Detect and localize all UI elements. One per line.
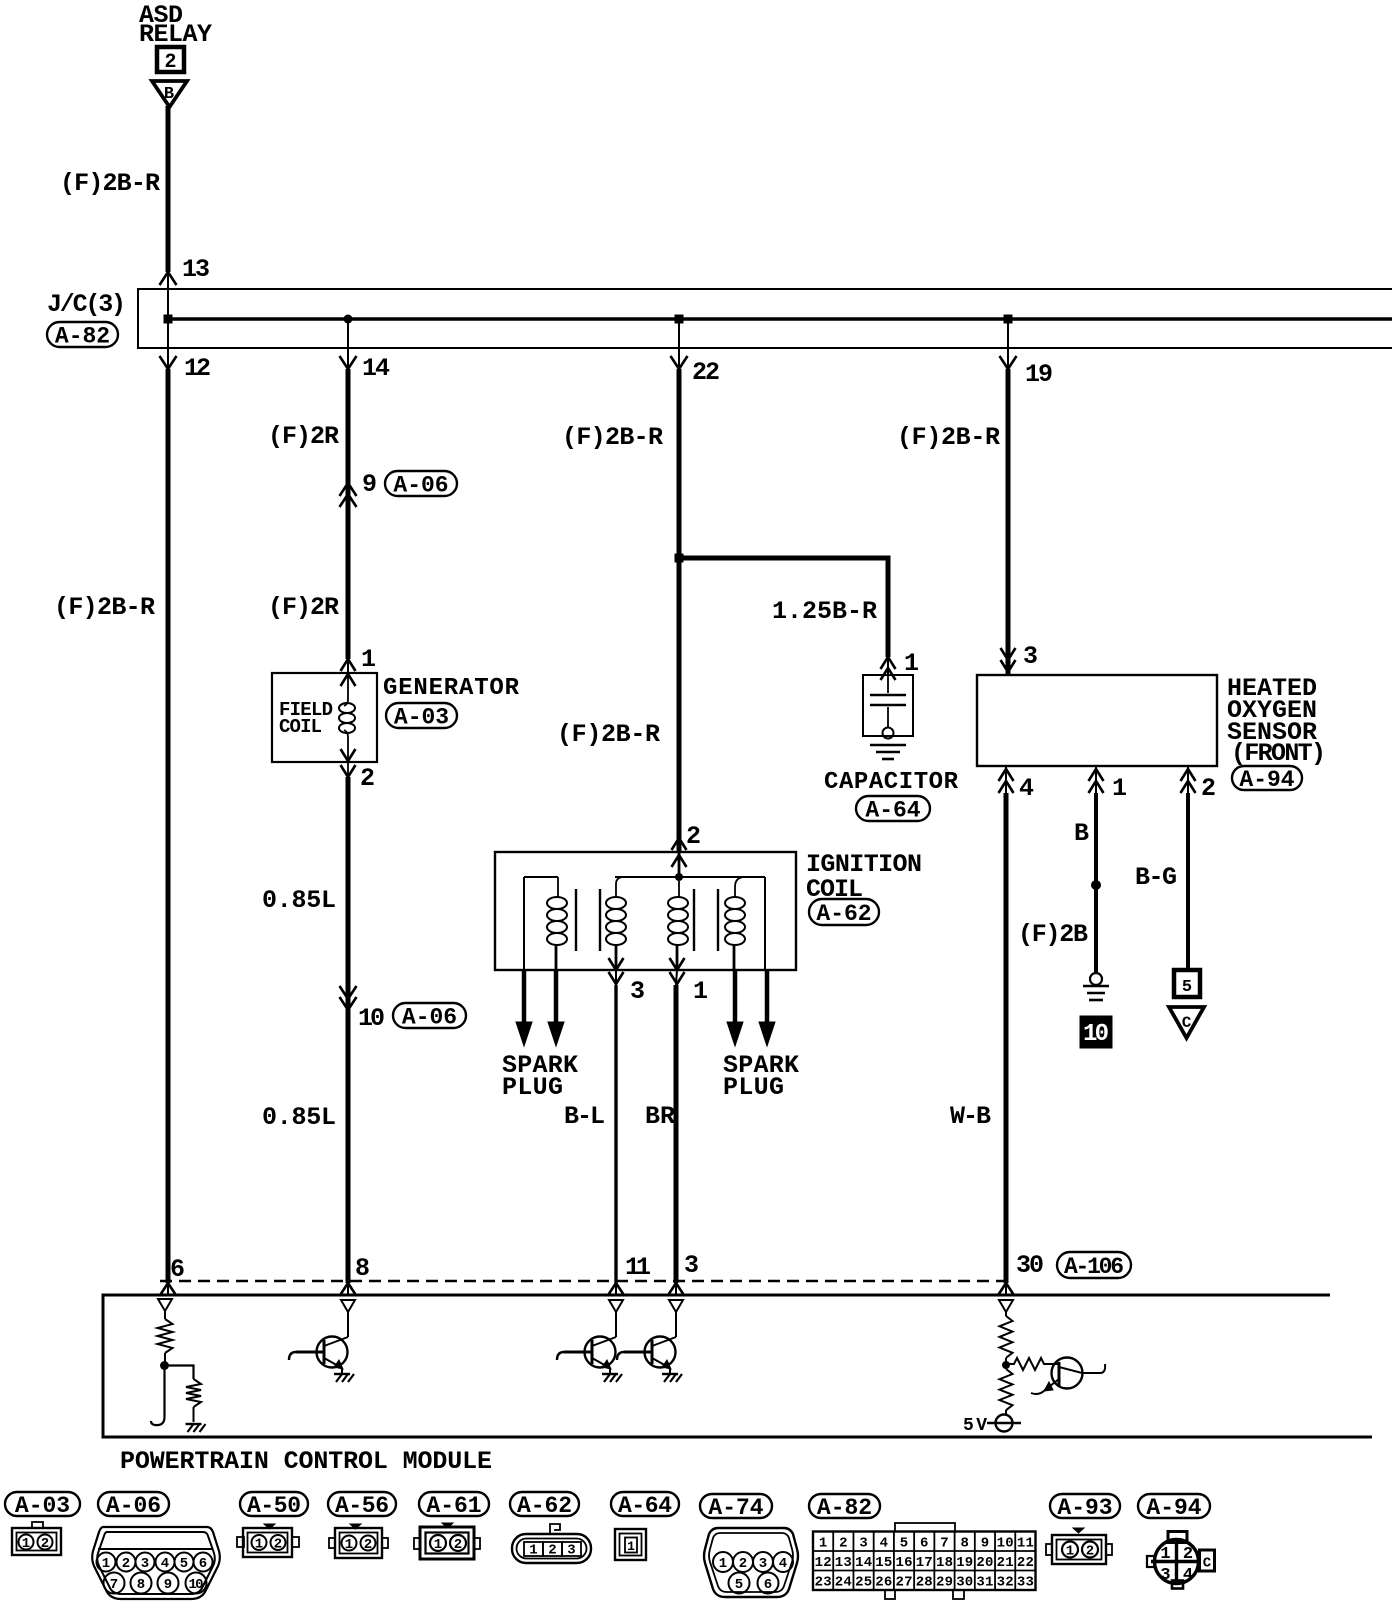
field coil L1 — [339, 703, 355, 713]
svg-text:1: 1 — [345, 1537, 353, 1553]
wire 1.25B-R branch to capacitor — [679, 558, 888, 657]
ASD relay pin box 2 — [157, 47, 184, 72]
transistor Q1 collector wire — [347, 1312, 349, 1337]
wire to R2 — [165, 1366, 194, 1380]
svg-text:4: 4 — [1019, 774, 1034, 803]
resistor R2 — [186, 1379, 201, 1407]
svg-text:C: C — [1203, 1556, 1212, 1572]
field coil wire bottom — [344, 730, 348, 777]
arrow out of J/C pin 12 — [160, 356, 177, 369]
PCM pin 6 input triangle — [158, 1299, 172, 1311]
wire — [193, 1407, 195, 1422]
transistor Q1 — [317, 1337, 348, 1368]
wire with hook end — [151, 1366, 165, 1426]
svg-text:1: 1 — [1066, 1544, 1074, 1560]
arrows out of oxygen sensor pin 2 — [1181, 769, 1196, 781]
connector oval A-93 — [1050, 1494, 1120, 1518]
connector oval A-82 — [809, 1494, 880, 1518]
svg-text:RELAY: RELAY — [139, 20, 212, 49]
wire (F)2B-R from ASD relay to J/C(3) — [166, 106, 171, 272]
svg-text:(F)2B-R: (F)2B-R — [54, 593, 155, 622]
connector oval A-06 — [393, 1003, 466, 1028]
svg-text:33: 33 — [1017, 1575, 1034, 1591]
svg-text:9: 9 — [164, 1577, 172, 1593]
svg-text:A-06: A-06 — [402, 1005, 457, 1031]
connector oval A-03 — [5, 1492, 80, 1516]
arrows out of oxygen sensor pin 1 — [1089, 769, 1104, 781]
transistor Q3 — [645, 1337, 676, 1368]
transistor Q2 — [585, 1337, 616, 1368]
ignition coil internal bus wires — [615, 876, 765, 878]
svg-text:A-06: A-06 — [106, 1493, 161, 1519]
arrows out of ignition coil pin 1 — [670, 958, 685, 970]
svg-text:4: 4 — [880, 1536, 888, 1552]
svg-text:J/C(3): J/C(3) — [47, 290, 126, 319]
svg-text:0.85L: 0.85L — [262, 886, 336, 915]
svg-text:POWERTRAIN CONTROL MODULE: POWERTRAIN CONTROL MODULE — [120, 1447, 492, 1476]
svg-text:3: 3 — [684, 1251, 699, 1280]
svg-text:3: 3 — [567, 1543, 575, 1559]
connector oval A-64 — [856, 796, 930, 821]
svg-text:1: 1 — [693, 977, 708, 1006]
svg-text:1: 1 — [627, 1539, 635, 1554]
connector A-64 drawing — [615, 1529, 646, 1560]
svg-text:A-94: A-94 — [1239, 767, 1294, 793]
svg-text:1: 1 — [22, 1536, 30, 1552]
svg-text:7: 7 — [110, 1577, 118, 1593]
svg-text:2: 2 — [41, 1536, 49, 1552]
PCM connector dashed line — [160, 1280, 1006, 1282]
svg-text:27: 27 — [896, 1575, 913, 1591]
svg-text:A-74: A-74 — [708, 1495, 763, 1521]
connector oval A-62 — [510, 1492, 579, 1516]
junction node pin 14 — [344, 315, 353, 324]
junction node pin 13/12 — [164, 315, 173, 324]
arrow out of generator pin 2 — [341, 765, 356, 777]
svg-text:A-62: A-62 — [816, 901, 871, 927]
svg-text:14: 14 — [855, 1555, 872, 1571]
svg-text:1: 1 — [719, 1556, 727, 1572]
svg-text:GENERATOR: GENERATOR — [383, 675, 520, 702]
PCM pin input triangle for Q1 — [341, 1300, 355, 1312]
svg-text:17: 17 — [916, 1555, 933, 1571]
wire (F)2B-R from J/C pin 12 to PCM pin 6 — [167, 319, 169, 369]
junction node pin 19 — [1004, 315, 1013, 324]
ignition coil internal junction node — [675, 873, 683, 881]
connector oval A-03 — [386, 703, 457, 728]
svg-text:8: 8 — [137, 1577, 145, 1593]
svg-text:19: 19 — [956, 1555, 973, 1571]
spark plug lead 2 — [554, 970, 559, 1026]
svg-text:6: 6 — [920, 1536, 928, 1552]
ground terminal circle — [1090, 973, 1102, 985]
svg-text:10: 10 — [1083, 1021, 1109, 1048]
junction node to capacitor branch — [675, 554, 684, 563]
svg-text:A-50: A-50 — [247, 1493, 301, 1519]
svg-text:2: 2 — [686, 822, 701, 851]
svg-text:A-03: A-03 — [15, 1493, 70, 1519]
svg-text:2: 2 — [274, 1537, 282, 1553]
svg-text:A-61: A-61 — [426, 1493, 481, 1519]
svg-text:W-B: W-B — [950, 1102, 991, 1131]
wire B-L from ignition coil pin 3 to PCM pin 11 — [615, 970, 617, 985]
connector A-93 drawing — [1073, 1528, 1084, 1533]
svg-text:2: 2 — [1086, 1544, 1094, 1560]
svg-text:26: 26 — [875, 1575, 892, 1591]
connector oval A-94 — [1232, 766, 1302, 790]
svg-text:2: 2 — [364, 1537, 372, 1553]
svg-text:3: 3 — [630, 977, 645, 1006]
svg-text:4: 4 — [779, 1556, 787, 1572]
svg-text:2: 2 — [122, 1556, 130, 1572]
ignition coil T1 primary winding — [616, 877, 624, 897]
arrows into capacitor pin 1 — [881, 657, 896, 669]
svg-text:1: 1 — [1160, 1545, 1170, 1564]
connector A-56 drawing — [350, 1524, 361, 1529]
svg-text:22: 22 — [1017, 1555, 1034, 1571]
arrows out of oxygen sensor pin 4 — [999, 769, 1014, 781]
svg-text:11: 11 — [625, 1253, 651, 1282]
connector oval A-94 — [1138, 1494, 1210, 1518]
connector oval A-06 — [98, 1492, 169, 1516]
transistor Q1 base wire — [296, 1351, 324, 1354]
svg-text:12: 12 — [815, 1555, 832, 1571]
wire B from oxygen sensor pin 1 to ground — [1095, 766, 1097, 793]
svg-text:9: 9 — [981, 1536, 989, 1552]
svg-text:1.25B-R: 1.25B-R — [772, 597, 877, 626]
wire B-G from oxygen sensor pin 2 — [1187, 766, 1189, 793]
svg-text:A-62: A-62 — [517, 1493, 572, 1519]
connector oval A-62 — [809, 899, 879, 925]
transistor Q3 emitter ground — [662, 1373, 678, 1375]
arrow into PCM pin 3 — [668, 1283, 685, 1296]
svg-text:2: 2 — [164, 51, 176, 74]
svg-text:1: 1 — [255, 1537, 263, 1553]
ground symbol — [1083, 985, 1109, 988]
junction node pin 22 — [675, 315, 684, 324]
inline connector A-06 pin 9 arrows — [340, 483, 357, 496]
svg-text:9: 9 — [362, 470, 377, 499]
svg-text:7: 7 — [940, 1536, 948, 1552]
svg-text:10: 10 — [997, 1536, 1014, 1552]
svg-text:15: 15 — [875, 1555, 892, 1571]
svg-text:COIL: COIL — [279, 716, 322, 738]
svg-text:4: 4 — [161, 1556, 169, 1572]
heated oxygen sensor box — [977, 675, 1217, 766]
svg-text:CAPACITOR: CAPACITOR — [824, 769, 959, 796]
svg-text:PLUG: PLUG — [723, 1073, 784, 1102]
arrow out of J/C pin 19 — [1000, 356, 1017, 369]
connector oval A-61 — [419, 1492, 489, 1516]
svg-text:13: 13 — [182, 255, 210, 284]
shield joint box 5 — [1174, 970, 1200, 997]
node — [1002, 1361, 1010, 1369]
svg-text:2: 2 — [839, 1536, 847, 1552]
svg-text:1: 1 — [819, 1536, 827, 1552]
arrow inside generator box bottom — [341, 749, 356, 761]
transistor Q4 — [1052, 1358, 1083, 1389]
wire W-B from oxygen sensor pin 4 to PCM pin 30 — [1005, 766, 1007, 793]
arrow into PCM pin 6 — [160, 1283, 177, 1296]
powertrain control module box — [103, 1295, 1372, 1437]
svg-text:31: 31 — [976, 1575, 993, 1591]
wire 0.85L from generator to PCM pin 8 — [346, 777, 351, 1283]
svg-text:A-106: A-106 — [1064, 1254, 1124, 1280]
svg-text:(F)2B-R: (F)2B-R — [60, 169, 160, 198]
wire — [1005, 1358, 1007, 1366]
svg-text:5V: 5V — [963, 1416, 987, 1436]
generator box — [272, 673, 377, 762]
wire (F)2B-R from J/C pin 22 to ignition coil — [678, 319, 680, 369]
svg-text:(F)2B-R: (F)2B-R — [557, 720, 660, 749]
arrow into PCM pin 30 — [998, 1283, 1015, 1296]
svg-text:3: 3 — [1160, 1566, 1170, 1585]
svg-text:10: 10 — [358, 1004, 385, 1033]
svg-text:A-56: A-56 — [335, 1493, 389, 1519]
field coil wire top — [344, 674, 348, 706]
wire (F)2R from J/C pin 14 to generator — [347, 319, 349, 369]
svg-text:3: 3 — [1023, 642, 1038, 671]
PCM pin input triangle for Q2 — [609, 1300, 623, 1312]
capacitor C1 box — [863, 675, 913, 736]
svg-text:13: 13 — [835, 1555, 852, 1571]
svg-text:(F)2B: (F)2B — [1018, 920, 1088, 949]
svg-text:24: 24 — [835, 1575, 852, 1591]
arrows out of ignition coil pin 3 — [609, 958, 624, 970]
transistor Q2 collector wire — [615, 1312, 617, 1337]
svg-text:14: 14 — [362, 354, 390, 383]
arrow into PCM pin 11 — [608, 1283, 625, 1296]
svg-text:5: 5 — [1182, 978, 1192, 997]
ignition coil T2 primary winding — [678, 881, 680, 897]
wire — [1005, 1410, 1007, 1414]
svg-text:5: 5 — [900, 1536, 908, 1552]
svg-text:3: 3 — [759, 1556, 767, 1572]
svg-text:2: 2 — [1183, 1545, 1193, 1564]
arrow into PCM pin 8 — [340, 1283, 357, 1296]
svg-text:1: 1 — [1112, 774, 1127, 803]
wire — [1005, 1312, 1007, 1316]
arrow out of J/C pin 22 — [671, 356, 688, 369]
svg-text:12: 12 — [184, 354, 211, 383]
svg-text:3: 3 — [141, 1556, 149, 1572]
svg-text:PLUG: PLUG — [502, 1073, 563, 1102]
shield connector triangle C — [1169, 1007, 1204, 1038]
svg-text:1: 1 — [904, 649, 919, 678]
svg-text:1: 1 — [434, 1537, 442, 1553]
connector A-50 drawing — [264, 1524, 275, 1529]
capacitor case ground circle — [883, 728, 894, 739]
spark plug lead 3 — [733, 970, 738, 1026]
svg-text:8: 8 — [960, 1536, 968, 1552]
svg-text:32: 32 — [997, 1575, 1014, 1591]
svg-text:23: 23 — [815, 1575, 832, 1591]
PCM pin 30 input triangle — [999, 1300, 1013, 1312]
connector oval A-64 — [611, 1492, 679, 1516]
capacitor ground symbol — [870, 744, 906, 747]
svg-text:30: 30 — [1016, 1251, 1044, 1280]
transistor Q2 emitter ground — [602, 1373, 618, 1375]
connector oval A-106 — [1057, 1252, 1131, 1278]
svg-text:A-03: A-03 — [394, 705, 449, 731]
svg-text:(FRONT): (FRONT) — [1231, 739, 1326, 768]
svg-text:A-94: A-94 — [1146, 1495, 1201, 1521]
svg-text:B-G: B-G — [1135, 863, 1177, 892]
svg-text:4: 4 — [1183, 1566, 1193, 1585]
svg-text:2: 2 — [454, 1537, 462, 1553]
connector oval A-74 — [700, 1494, 772, 1518]
ignition coil T2 secondary winding — [735, 877, 745, 897]
svg-text:A-64: A-64 — [865, 798, 920, 824]
ignition coil internal feed wire — [678, 852, 681, 877]
ignition coil T1 secondary winding — [557, 877, 559, 897]
svg-text:6: 6 — [764, 1577, 772, 1593]
node — [160, 1361, 169, 1370]
svg-text:(F)2B-R: (F)2B-R — [562, 423, 663, 452]
svg-text:19: 19 — [1025, 360, 1053, 389]
connector A-74 drawing — [704, 1528, 798, 1597]
svg-text:3: 3 — [859, 1536, 867, 1552]
arrows into oxygen sensor pin 3 — [1001, 648, 1016, 660]
svg-text:5: 5 — [180, 1556, 188, 1572]
svg-text:1: 1 — [361, 645, 376, 674]
svg-text:16: 16 — [896, 1555, 913, 1571]
svg-text:22: 22 — [692, 358, 720, 387]
svg-text:8: 8 — [355, 1254, 370, 1283]
svg-text:25: 25 — [855, 1575, 872, 1591]
svg-text:30: 30 — [956, 1575, 973, 1591]
svg-text:A-82: A-82 — [817, 1495, 872, 1521]
transistor Q3 collector wire — [675, 1312, 677, 1337]
arrows into ignition coil pin 2 — [672, 838, 687, 850]
svg-text:A-06: A-06 — [393, 473, 448, 499]
wire BR from ignition coil pin 1 to PCM pin 3 — [676, 970, 677, 985]
junction box J/C(3) — [138, 289, 1392, 348]
svg-text:2: 2 — [548, 1543, 556, 1559]
transistor Q2 base wire — [564, 1351, 592, 1354]
junction node on ground wire — [1091, 880, 1101, 890]
svg-text:20: 20 — [976, 1555, 993, 1571]
svg-text:2: 2 — [1201, 774, 1216, 803]
connector oval A-82 — [47, 322, 118, 347]
connector oval A-50 — [240, 1492, 308, 1516]
svg-text:21: 21 — [997, 1555, 1014, 1571]
transistor Q1 emitter ground — [334, 1373, 350, 1375]
svg-text:1: 1 — [102, 1556, 110, 1572]
svg-text:(F)2R: (F)2R — [268, 422, 339, 451]
svg-text:A-82: A-82 — [55, 324, 110, 350]
svg-text:10: 10 — [189, 1577, 204, 1593]
ignition coil T1 core — [575, 889, 577, 951]
inline connector A-06 pin 10 arrows — [340, 986, 357, 999]
connector A-82 drawing — [895, 1523, 955, 1532]
arrow out of J/C pin 14 — [340, 356, 357, 369]
wire — [164, 1353, 166, 1365]
svg-text:B: B — [1074, 819, 1089, 848]
ignition coil T2 core — [693, 889, 695, 951]
capacitor C1 symbol — [887, 675, 889, 693]
svg-text:(F)2B-R: (F)2B-R — [897, 423, 1000, 452]
connector A-06 drawing — [92, 1527, 220, 1599]
connector oval A-06 — [385, 471, 457, 496]
5V supply symbol — [996, 1415, 1013, 1432]
svg-text:29: 29 — [936, 1575, 953, 1591]
resistor R3 — [1000, 1316, 1013, 1358]
svg-text:1: 1 — [529, 1543, 537, 1559]
connector A-94 drawing — [1168, 1532, 1187, 1543]
bus wire inside J/C(3) — [168, 317, 1392, 320]
svg-text:5: 5 — [735, 1577, 743, 1593]
svg-text:18: 18 — [936, 1555, 953, 1571]
ignition coil box — [495, 852, 796, 970]
svg-text:28: 28 — [916, 1575, 933, 1591]
connector oval A-56 — [328, 1492, 396, 1516]
resistor R5 — [1000, 1369, 1013, 1410]
svg-text:2: 2 — [360, 764, 375, 793]
spark plug lead 1 — [522, 970, 527, 1026]
svg-text:11: 11 — [1017, 1536, 1034, 1552]
arrow into J/C pin 13 — [160, 272, 177, 285]
svg-text:C: C — [1182, 1014, 1192, 1032]
ASD relay connector triangle B — [152, 81, 187, 107]
connector A-62 drawing — [550, 1524, 560, 1534]
svg-text:(F)2R: (F)2R — [268, 593, 339, 622]
resistor R4 horizontal — [1006, 1358, 1058, 1370]
svg-text:A-93: A-93 — [1057, 1495, 1112, 1521]
svg-text:6: 6 — [199, 1556, 207, 1572]
spark plug lead 4 — [765, 970, 770, 1026]
connector A-03 drawing — [32, 1522, 43, 1528]
resistor R1 — [158, 1319, 173, 1353]
transistor Q3 base wire — [624, 1351, 652, 1354]
connector A-61 drawing — [442, 1523, 453, 1528]
ground point box 10 — [1080, 1016, 1112, 1048]
svg-text:2: 2 — [739, 1556, 747, 1572]
svg-text:0.85L: 0.85L — [262, 1103, 336, 1132]
svg-text:B-L: B-L — [564, 1102, 605, 1131]
ignition coil T1 secondary output wire — [523, 877, 525, 970]
ignition coil T2 secondary output wire — [764, 877, 766, 970]
wire (F)2B-R from J/C pin 19 to oxygen sensor — [1007, 319, 1009, 369]
wire — [164, 1311, 166, 1319]
svg-text:A-64: A-64 — [618, 1493, 672, 1519]
svg-text:6: 6 — [170, 1255, 185, 1284]
arrow into generator pin 1 — [341, 659, 356, 671]
PCM pin input triangle for Q3 — [669, 1300, 683, 1312]
svg-text:B: B — [164, 85, 174, 104]
arrow inside generator box — [341, 674, 356, 686]
svg-text:BR: BR — [645, 1102, 675, 1131]
ground — [186, 1423, 202, 1425]
